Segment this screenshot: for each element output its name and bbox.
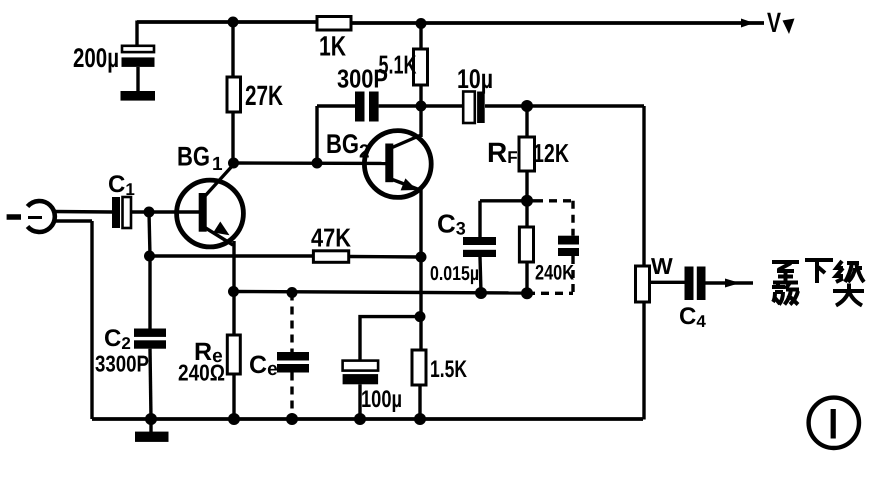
svg-text:1K: 1K xyxy=(319,31,346,62)
svg-text:1.5K: 1.5K xyxy=(430,356,467,383)
svg-text:300P: 300P xyxy=(337,64,388,94)
svg-text:W: W xyxy=(651,253,673,279)
svg-text:BG: BG xyxy=(326,129,359,159)
svg-text:47K: 47K xyxy=(311,223,351,253)
svg-text:3300P: 3300P xyxy=(95,351,149,377)
svg-text:100µ: 100µ xyxy=(361,386,402,413)
svg-text:10µ: 10µ xyxy=(457,64,493,94)
svg-text:BG: BG xyxy=(177,142,210,172)
svg-text:1: 1 xyxy=(212,154,223,175)
svg-text:12K: 12K xyxy=(533,138,569,168)
svg-text:2: 2 xyxy=(359,142,370,163)
svg-text:200µ: 200µ xyxy=(73,43,119,73)
svg-text:27K: 27K xyxy=(245,80,283,111)
svg-text:0.015µ: 0.015µ xyxy=(430,263,479,285)
svg-text:240K: 240K xyxy=(535,262,574,285)
svg-text:240Ω: 240Ω xyxy=(178,360,225,386)
svg-text:V: V xyxy=(767,7,781,38)
